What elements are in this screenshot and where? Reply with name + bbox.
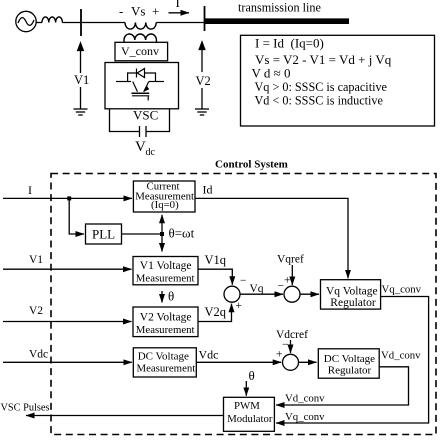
svg-text:V1 Voltage: V1 Voltage <box>140 260 192 272</box>
svg-text:V2: V2 <box>29 305 43 317</box>
wire inductor to bus1 <box>62 22 81 24</box>
svg-text:PWM: PWM <box>234 400 260 412</box>
svg-text:−: − <box>278 281 285 293</box>
svg-text:Vs: Vs <box>131 3 145 18</box>
svg-text:-: - <box>119 3 123 18</box>
bus bar B1 <box>80 9 82 36</box>
wire V2 to measurement <box>3 321 132 323</box>
wire Vdc to summer3 <box>196 361 281 363</box>
wire VSC to capacitor right <box>146 109 170 132</box>
svg-text:DC Voltage: DC Voltage <box>324 353 375 365</box>
V2 measurement arrow <box>201 49 203 72</box>
transformer winding (line side) <box>125 23 156 30</box>
junction theta <box>160 232 164 236</box>
ground G2 <box>195 108 209 110</box>
junction on I wire <box>67 196 71 200</box>
wire Vqref to summer2 <box>291 265 293 285</box>
wire V1q to summer1 <box>198 269 232 285</box>
svg-text:VSC: VSC <box>133 108 158 123</box>
svg-text:Vq_conv: Vq_conv <box>285 411 325 423</box>
wire I to Current Measurement <box>3 197 132 199</box>
V1 wire lower <box>80 87 82 109</box>
V1 Voltage Measurement box <box>133 257 198 285</box>
bus bar B2 <box>204 6 206 31</box>
transformer winding (converter side) <box>124 34 156 42</box>
ground G1 <box>74 108 88 110</box>
wire theta up to Current Measurement <box>161 215 163 234</box>
svg-text:Modulator: Modulator <box>227 413 273 425</box>
AC source Vs <box>16 11 36 31</box>
Vq Voltage Regulator box <box>321 280 381 309</box>
wire VSC to capacitor left <box>110 109 140 132</box>
svg-text:−: − <box>282 339 289 351</box>
equation box <box>241 35 435 126</box>
wire PLL to theta node <box>122 233 163 235</box>
wire VSC pulses <box>26 415 224 417</box>
wire source to inductor <box>36 22 42 24</box>
svg-text:Vd_conv: Vd_conv <box>381 350 421 362</box>
series inductor <box>42 17 62 23</box>
svg-text:Vdc: Vdc <box>29 349 48 361</box>
svg-text:+: + <box>284 275 291 287</box>
svg-text:Measurement: Measurement <box>136 324 195 336</box>
svg-text:Vd_conv: Vd_conv <box>285 393 325 405</box>
capacitor Vdc <box>139 126 141 137</box>
svg-text:I: I <box>176 0 180 10</box>
svg-text:+: + <box>276 349 283 361</box>
DC Voltage Regulator box <box>318 349 379 378</box>
svg-text:Vdc: Vdc <box>199 348 219 362</box>
wire V1 to measurement <box>3 268 132 270</box>
svg-text:+: + <box>236 300 243 312</box>
wire Vdc to measurement <box>3 361 132 363</box>
PWM Modulator box <box>224 397 275 431</box>
svg-text:dc: dc <box>146 147 156 158</box>
svg-text:Measurement: Measurement <box>136 273 195 285</box>
svg-text:+: + <box>152 4 159 19</box>
svg-text:Vdcref: Vdcref <box>276 329 308 341</box>
dashed control box <box>51 174 436 435</box>
wire summer3 to DC regulator <box>299 361 317 363</box>
theta arrow to V2 box <box>161 291 163 303</box>
summer S3 <box>283 354 299 370</box>
svg-text:Measurement: Measurement <box>137 362 196 374</box>
svg-text:VSC Pulses: VSC Pulses <box>1 403 50 414</box>
svg-text:V_conv: V_conv <box>121 44 159 58</box>
svg-text:Vqref: Vqref <box>277 254 304 266</box>
svg-text:V2q: V2q <box>205 305 227 319</box>
wire winding to bus2 <box>156 22 204 24</box>
svg-text:V2 Voltage: V2 Voltage <box>140 311 192 323</box>
wire Vd_conv to PWM <box>276 367 409 405</box>
svg-text:I: I <box>28 183 32 197</box>
svg-text:V1: V1 <box>29 254 43 266</box>
wire Vq_conv to PWM <box>276 297 429 424</box>
svg-text:PLL: PLL <box>92 227 115 242</box>
svg-text:transmission line: transmission line <box>238 1 321 15</box>
svg-text:θ: θ <box>249 368 255 383</box>
summer S2 <box>284 286 300 302</box>
svg-text:Vq_conv: Vq_conv <box>382 284 422 296</box>
summer S1 <box>224 286 240 302</box>
svg-text:I = Id (Iq=0): I = Id (Iq=0) <box>255 35 324 50</box>
svg-text:V: V <box>135 139 146 155</box>
svg-text:DC Voltage: DC Voltage <box>138 351 189 363</box>
IGBT/diode icon <box>116 69 164 101</box>
svg-text:Control System: Control System <box>215 159 288 171</box>
DC Voltage Measurement box <box>133 348 196 377</box>
V2 Voltage Measurement box <box>133 307 198 337</box>
transmission line bar <box>205 18 349 24</box>
wire V2q to summer1 <box>198 304 232 322</box>
svg-text:Vd < 0: SSSC is inductive: Vd < 0: SSSC is inductive <box>255 93 383 107</box>
wire Vdcref to summer3 <box>290 340 292 353</box>
V1 measurement arrow <box>80 50 82 73</box>
svg-text:V d ≈ 0: V d ≈ 0 <box>252 66 291 81</box>
svg-text:Vq Voltage: Vq Voltage <box>326 285 378 297</box>
svg-text:Vq: Vq <box>250 283 264 295</box>
svg-text:(Iq=0): (Iq=0) <box>151 199 179 211</box>
Current Measurement box <box>133 181 195 212</box>
wire Id to Vq regulator <box>195 198 348 278</box>
svg-text:Vq > 0: SSSC is capacitive: Vq > 0: SSSC is capacitive <box>255 80 387 94</box>
V2 wire lower <box>201 88 203 109</box>
wire bus1 to winding <box>81 22 125 24</box>
svg-text:V1q: V1q <box>205 253 227 267</box>
wire junction to PLL <box>69 198 84 234</box>
wire Vq summer1 to summer2 <box>240 293 283 295</box>
V_conv box <box>115 42 168 61</box>
svg-text:Id: Id <box>203 183 213 197</box>
wire theta to PWM <box>245 381 247 396</box>
PLL box <box>86 224 122 244</box>
svg-text:Regulator: Regulator <box>328 365 372 377</box>
AC source sine wave <box>18 18 34 26</box>
wire summer2 to Vq regulator <box>300 293 319 295</box>
VSC box <box>105 63 179 109</box>
svg-text:θ=ωt: θ=ωt <box>169 226 195 241</box>
svg-text:θ: θ <box>168 289 174 304</box>
wire theta down to V1 measurement <box>161 234 163 252</box>
svg-text:V1: V1 <box>74 73 89 87</box>
svg-text:−: − <box>240 275 247 287</box>
svg-text:Regulator: Regulator <box>330 297 376 309</box>
svg-text:V2: V2 <box>196 74 211 88</box>
